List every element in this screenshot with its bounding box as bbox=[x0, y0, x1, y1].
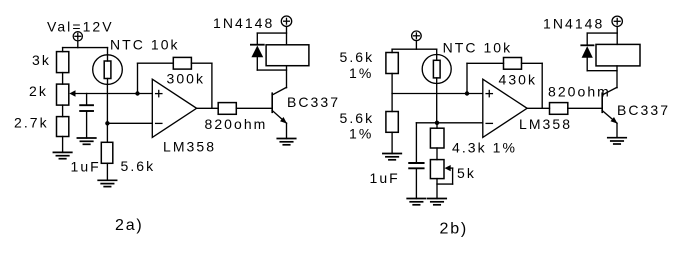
wire power drop (2b) bbox=[415, 41, 417, 50]
svg-text:LM358: LM358 bbox=[519, 116, 572, 132]
label 1% lower (2b) bbox=[349, 126, 373, 142]
label 2.7k bbox=[14, 114, 49, 130]
ground below 5.6k (2a) bbox=[98, 180, 116, 186]
ground below 2.7k bbox=[53, 152, 71, 158]
label 4.3k 1% (2b) bbox=[452, 139, 517, 155]
label NTC 10k (2a) bbox=[110, 36, 180, 52]
wire feedback right horizontal (2b) bbox=[522, 62, 543, 64]
svg-text:820ohm: 820ohm bbox=[205, 116, 268, 132]
svg-text:2a): 2a) bbox=[115, 217, 144, 234]
wire top rail (2a) bbox=[63, 47, 108, 49]
wire diode top tap (2b) bbox=[587, 32, 617, 34]
svg-text:2k: 2k bbox=[29, 83, 48, 99]
potentiometer 2k bbox=[57, 84, 76, 105]
ground below 5.6k-2 (2b) bbox=[383, 154, 401, 160]
wire 820ohm to base (2b) bbox=[568, 107, 602, 109]
label 5.6k upper (2b) bbox=[340, 49, 375, 65]
svg-text:1N4148: 1N4148 bbox=[213, 15, 274, 31]
ground below 5k (2b) bbox=[428, 199, 446, 205]
thermistor NTC 10k (2a) bbox=[93, 55, 123, 85]
wire emitter to ground (2a) bbox=[286, 123, 288, 138]
resistor 300k bbox=[173, 57, 191, 69]
resistor 5.6k 1% upper (2b) bbox=[386, 53, 398, 74]
svg-text:3k: 3k bbox=[32, 52, 51, 68]
label 1N4148 (2a) bbox=[213, 15, 274, 31]
wire 5.6k-1 to + node (2b) bbox=[391, 74, 393, 94]
label 1% upper (2b) bbox=[349, 65, 373, 81]
label 5.6k (2a) bbox=[121, 158, 156, 174]
resistor 5.6k 1% lower (2b) bbox=[386, 112, 398, 133]
svg-text:5k: 5k bbox=[457, 165, 476, 181]
junction NTC / 4.3k / - input (2b) bbox=[435, 121, 439, 125]
diode 1N4148 (2a) bbox=[251, 33, 264, 70]
wire 2k to 2.7k bbox=[62, 105, 64, 117]
ground at emitter (2a) bbox=[277, 139, 295, 145]
ground below 1uF cap (2b) bbox=[407, 199, 425, 205]
resistor 430k (2b) bbox=[504, 58, 522, 70]
wire feedback left horizontal (2a) bbox=[138, 62, 174, 64]
label 1uF (2a) bbox=[71, 158, 101, 174]
transistor BC337 (2a) bbox=[272, 87, 287, 123]
wire 4.3k to 5k pot (2b) bbox=[436, 148, 438, 160]
junction NTC / 5.6k / - input (2a) bbox=[105, 121, 109, 125]
wire relay top to power (2a) bbox=[286, 26, 288, 45]
wire rail to NTC (2a) bbox=[107, 48, 109, 55]
wire op-amp output (2a) bbox=[197, 107, 219, 109]
wire relay top to power (2b) bbox=[616, 26, 618, 44]
label NTC 10k (2b) bbox=[443, 39, 513, 55]
wire minus node left to cap (2b) bbox=[416, 122, 437, 124]
wire diode bottom tap (2a) bbox=[257, 69, 286, 71]
svg-text:1%: 1% bbox=[349, 126, 373, 142]
svg-text:BC337: BC337 bbox=[617, 102, 670, 118]
wire top rail (2b) bbox=[392, 48, 437, 50]
svg-text:5.6k: 5.6k bbox=[340, 49, 375, 65]
label 5.6k lower (2b) bbox=[340, 110, 375, 126]
svg-text:430k: 430k bbox=[499, 72, 538, 88]
svg-text:2b): 2b) bbox=[440, 221, 469, 238]
label 2k bbox=[29, 83, 48, 99]
wire feedback right vertical (2b) bbox=[541, 63, 543, 108]
relay coil (2a) bbox=[266, 45, 309, 66]
label 5k (2b) bbox=[457, 165, 476, 181]
svg-text:1uF: 1uF bbox=[71, 158, 101, 174]
svg-text:Val=12V: Val=12V bbox=[47, 19, 114, 35]
power source +12V (2b) bbox=[412, 31, 422, 41]
label Val=12V bbox=[47, 19, 114, 35]
label 3k bbox=[32, 52, 51, 68]
wire op-amp output (2b) bbox=[527, 107, 549, 109]
resistor 820ohm (2a) bbox=[218, 103, 236, 115]
label 430k (2b) bbox=[499, 72, 538, 88]
resistor 3k bbox=[57, 52, 69, 73]
transistor BC337 (2b) bbox=[602, 87, 617, 123]
wire feedback left vertical (2b) bbox=[466, 63, 468, 93]
label 2a) bbox=[115, 217, 144, 234]
svg-text:5.6k: 5.6k bbox=[121, 158, 156, 174]
label 2b) bbox=[440, 221, 469, 238]
svg-text:300k: 300k bbox=[167, 70, 206, 86]
wire feedback right horizontal (2a) bbox=[191, 62, 212, 64]
relay coil (2b) bbox=[596, 44, 640, 66]
wire 2.7k to ground bbox=[62, 137, 64, 153]
wire minus node to op-amp (2a) bbox=[107, 122, 152, 124]
wire collector up (2a) bbox=[286, 66, 288, 88]
wire minus node to 5.6k (2a) bbox=[106, 123, 108, 142]
wire 5.6k to ground (2a) bbox=[106, 163, 108, 180]
label LM358 (2a) bbox=[163, 139, 216, 155]
wire NTC to minus node (2a) bbox=[106, 84, 108, 123]
wire NTC to minus node (2b) bbox=[436, 83, 438, 122]
label BC337 (2a) bbox=[287, 94, 340, 110]
wire power drop (2a) bbox=[77, 41, 79, 48]
power source +12V relay (2b) bbox=[612, 16, 622, 26]
wire collector up (2b) bbox=[616, 66, 618, 88]
svg-text:LM358: LM358 bbox=[163, 139, 216, 155]
svg-text:5.6k: 5.6k bbox=[340, 110, 375, 126]
junction + input / feedback (2a) bbox=[135, 91, 139, 95]
label 820ohm (2a) bbox=[205, 116, 268, 132]
wire rail to 5.6k-1 (2b) bbox=[391, 49, 393, 52]
svg-text:1N4148: 1N4148 bbox=[543, 16, 604, 32]
op-amp LM358 (2b) bbox=[483, 79, 527, 137]
label 1N4148 (2b) bbox=[543, 16, 604, 32]
wire feedback right vertical (2a) bbox=[211, 63, 213, 108]
wire feedback left horizontal (2b) bbox=[467, 62, 504, 64]
wire minus node to 4.3k (2b) bbox=[436, 123, 438, 128]
wire 3k to 2k bbox=[62, 73, 64, 85]
wire diode bottom tap (2b) bbox=[587, 70, 617, 72]
wire 5k to ground (2b) bbox=[436, 179, 438, 199]
op-amp LM358 (2a) bbox=[152, 79, 196, 137]
label 300k bbox=[167, 70, 206, 86]
wire wiper to op-amp + input (2a) bbox=[75, 93, 152, 95]
svg-text:1%: 1% bbox=[349, 65, 373, 81]
resistor 2.7k bbox=[57, 117, 69, 137]
wire minus node to op-amp (2b) bbox=[437, 122, 483, 124]
wire 820ohm to base (2a) bbox=[236, 107, 272, 109]
wire rail to NTC (2b) bbox=[436, 49, 438, 54]
svg-text:1uF: 1uF bbox=[370, 170, 400, 186]
wire 5k wiper loop (2b) bbox=[437, 168, 453, 184]
svg-text:BC337: BC337 bbox=[287, 94, 340, 110]
capacitor 1uF (2a) bbox=[80, 94, 93, 139]
wire + node to 5.6k-2 (2b) bbox=[391, 94, 393, 112]
resistor 820ohm (2b) bbox=[550, 103, 568, 115]
wire rail to 3k bbox=[62, 48, 64, 52]
capacitor 1uF (2b) bbox=[409, 123, 423, 199]
label LM358 (2b) bbox=[519, 116, 572, 132]
label 1uF (2b) bbox=[370, 170, 400, 186]
wire diode top tap (2a) bbox=[257, 32, 286, 34]
ground at emitter (2b) bbox=[608, 138, 626, 144]
svg-text:4.3k 1%: 4.3k 1% bbox=[452, 139, 517, 155]
junction + input / feedback (2b) bbox=[465, 91, 469, 95]
svg-text:NTC 10k: NTC 10k bbox=[110, 36, 180, 52]
diode 1N4148 (2b) bbox=[581, 33, 593, 71]
wire 5.6k-2 to ground (2b) bbox=[391, 132, 393, 153]
svg-text:2.7k: 2.7k bbox=[14, 114, 49, 130]
wire emitter to ground (2b) bbox=[616, 123, 618, 138]
wire feedback left vertical (2a) bbox=[137, 63, 139, 93]
power source Val=12V (2a) bbox=[73, 32, 82, 41]
thermistor NTC 10k (2b) bbox=[422, 55, 451, 84]
potentiometer 5k (2b) bbox=[430, 160, 450, 179]
wire + node to op-amp (2b) bbox=[392, 93, 483, 95]
resistor 4.3k 1% (2b) bbox=[430, 128, 444, 148]
svg-text:NTC 10k: NTC 10k bbox=[443, 39, 513, 55]
ground below 1uF cap (2a) bbox=[77, 138, 95, 144]
label BC337 (2b) bbox=[617, 102, 670, 118]
resistor 5.6k (2a) bbox=[101, 142, 113, 163]
label 820ohm (2b) bbox=[548, 84, 611, 100]
power source +12V relay (2a) bbox=[281, 16, 291, 26]
